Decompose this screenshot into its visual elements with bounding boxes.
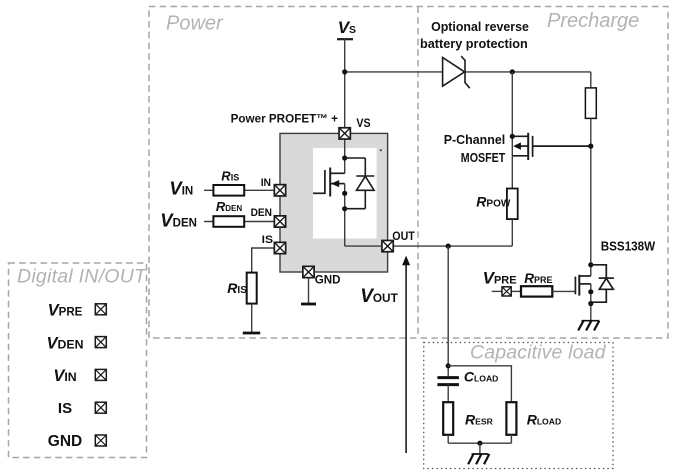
svg-text:Power: Power: [166, 12, 224, 34]
svg-text:GND: GND: [48, 433, 82, 450]
svg-text:BSS138W: BSS138W: [601, 239, 656, 254]
svg-text:Precharge: Precharge: [547, 10, 639, 32]
svg-text:GND: GND: [315, 273, 341, 287]
svg-text:IS: IS: [58, 400, 72, 417]
svg-text:battery protection: battery protection: [420, 37, 528, 51]
svg-text:OUT: OUT: [392, 229, 415, 243]
svg-text:VS: VS: [356, 116, 370, 130]
svg-text:Power PROFET™ +: Power PROFET™ +: [231, 111, 338, 125]
svg-text:MOSFET: MOSFET: [461, 151, 506, 165]
svg-text:P-Channel: P-Channel: [444, 133, 506, 147]
svg-text:VDEN: VDEN: [47, 334, 84, 352]
svg-text:DEN: DEN: [251, 207, 272, 219]
svg-text:Optional reverse: Optional reverse: [431, 20, 529, 34]
svg-text:Capacitive load: Capacitive load: [470, 342, 607, 364]
svg-text:Digital IN/OUT: Digital IN/OUT: [17, 266, 148, 288]
svg-text:IS: IS: [262, 234, 274, 246]
svg-text:IN: IN: [261, 177, 271, 189]
svg-text:VIN: VIN: [53, 367, 76, 385]
